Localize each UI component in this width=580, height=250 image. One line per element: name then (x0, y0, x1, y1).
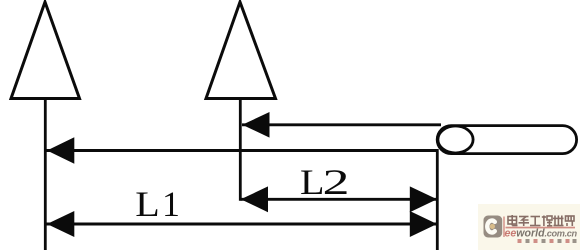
antenna A1 mast wire (44, 99, 47, 250)
L2 right arrowhead (410, 186, 437, 212)
watermark logo white C (487, 220, 495, 232)
arrowhead on top line pointing left at A2 (242, 112, 269, 138)
watermark background (cream) (478, 204, 580, 250)
watermark logo box (484, 216, 503, 238)
probe rod (capsule body) (437, 126, 576, 154)
svg-text:L: L (135, 184, 160, 224)
watermark red separator bar (503, 217, 505, 238)
L1 left arrowhead (47, 211, 74, 237)
antenna A2 (middle) triangle (206, 2, 276, 99)
arrowhead on second line pointing left at A1 (47, 137, 74, 163)
dimension line L2 (241, 198, 438, 201)
svg-text:1: 1 (162, 184, 180, 224)
dimension line L1 (47, 223, 438, 226)
watermark Chinese title 电子工程世界 (stylized strokes) (508, 215, 574, 226)
wire: second horizontal line (probe column to antenna A1) (47, 149, 438, 152)
svg-text:eeworld.com.cn: eeworld.com.cn (505, 228, 578, 240)
antenna A1 (left) triangle (11, 2, 80, 99)
svg-text:2: 2 (323, 162, 350, 202)
L1 right arrowhead (410, 211, 437, 237)
probe rod end-cap ellipse (438, 126, 473, 153)
svg-text:L: L (300, 162, 325, 202)
wire: top horizontal line (probe to antenna A2) (242, 123, 441, 126)
L2 left arrowhead (241, 186, 268, 212)
antenna A2 mast wire (239, 99, 242, 201)
watermark red underline (506, 227, 576, 229)
watermark logo tan dot (490, 224, 495, 229)
vertical reference line below probe (436, 149, 439, 250)
watermark tiny slogan characters (518, 239, 577, 243)
